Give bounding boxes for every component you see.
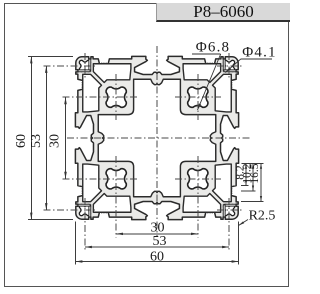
svg-text:53: 53 <box>153 234 167 249</box>
svg-text:60: 60 <box>14 134 29 148</box>
svg-text:30: 30 <box>48 134 63 148</box>
svg-text:16.5: 16.5 <box>249 163 261 183</box>
svg-text:60: 60 <box>150 249 164 264</box>
svg-text:R2.5: R2.5 <box>249 209 276 224</box>
svg-text:Φ6.8: Φ6.8 <box>196 40 231 56</box>
svg-text:Φ4.1: Φ4.1 <box>242 45 277 61</box>
svg-text:53: 53 <box>29 134 44 148</box>
